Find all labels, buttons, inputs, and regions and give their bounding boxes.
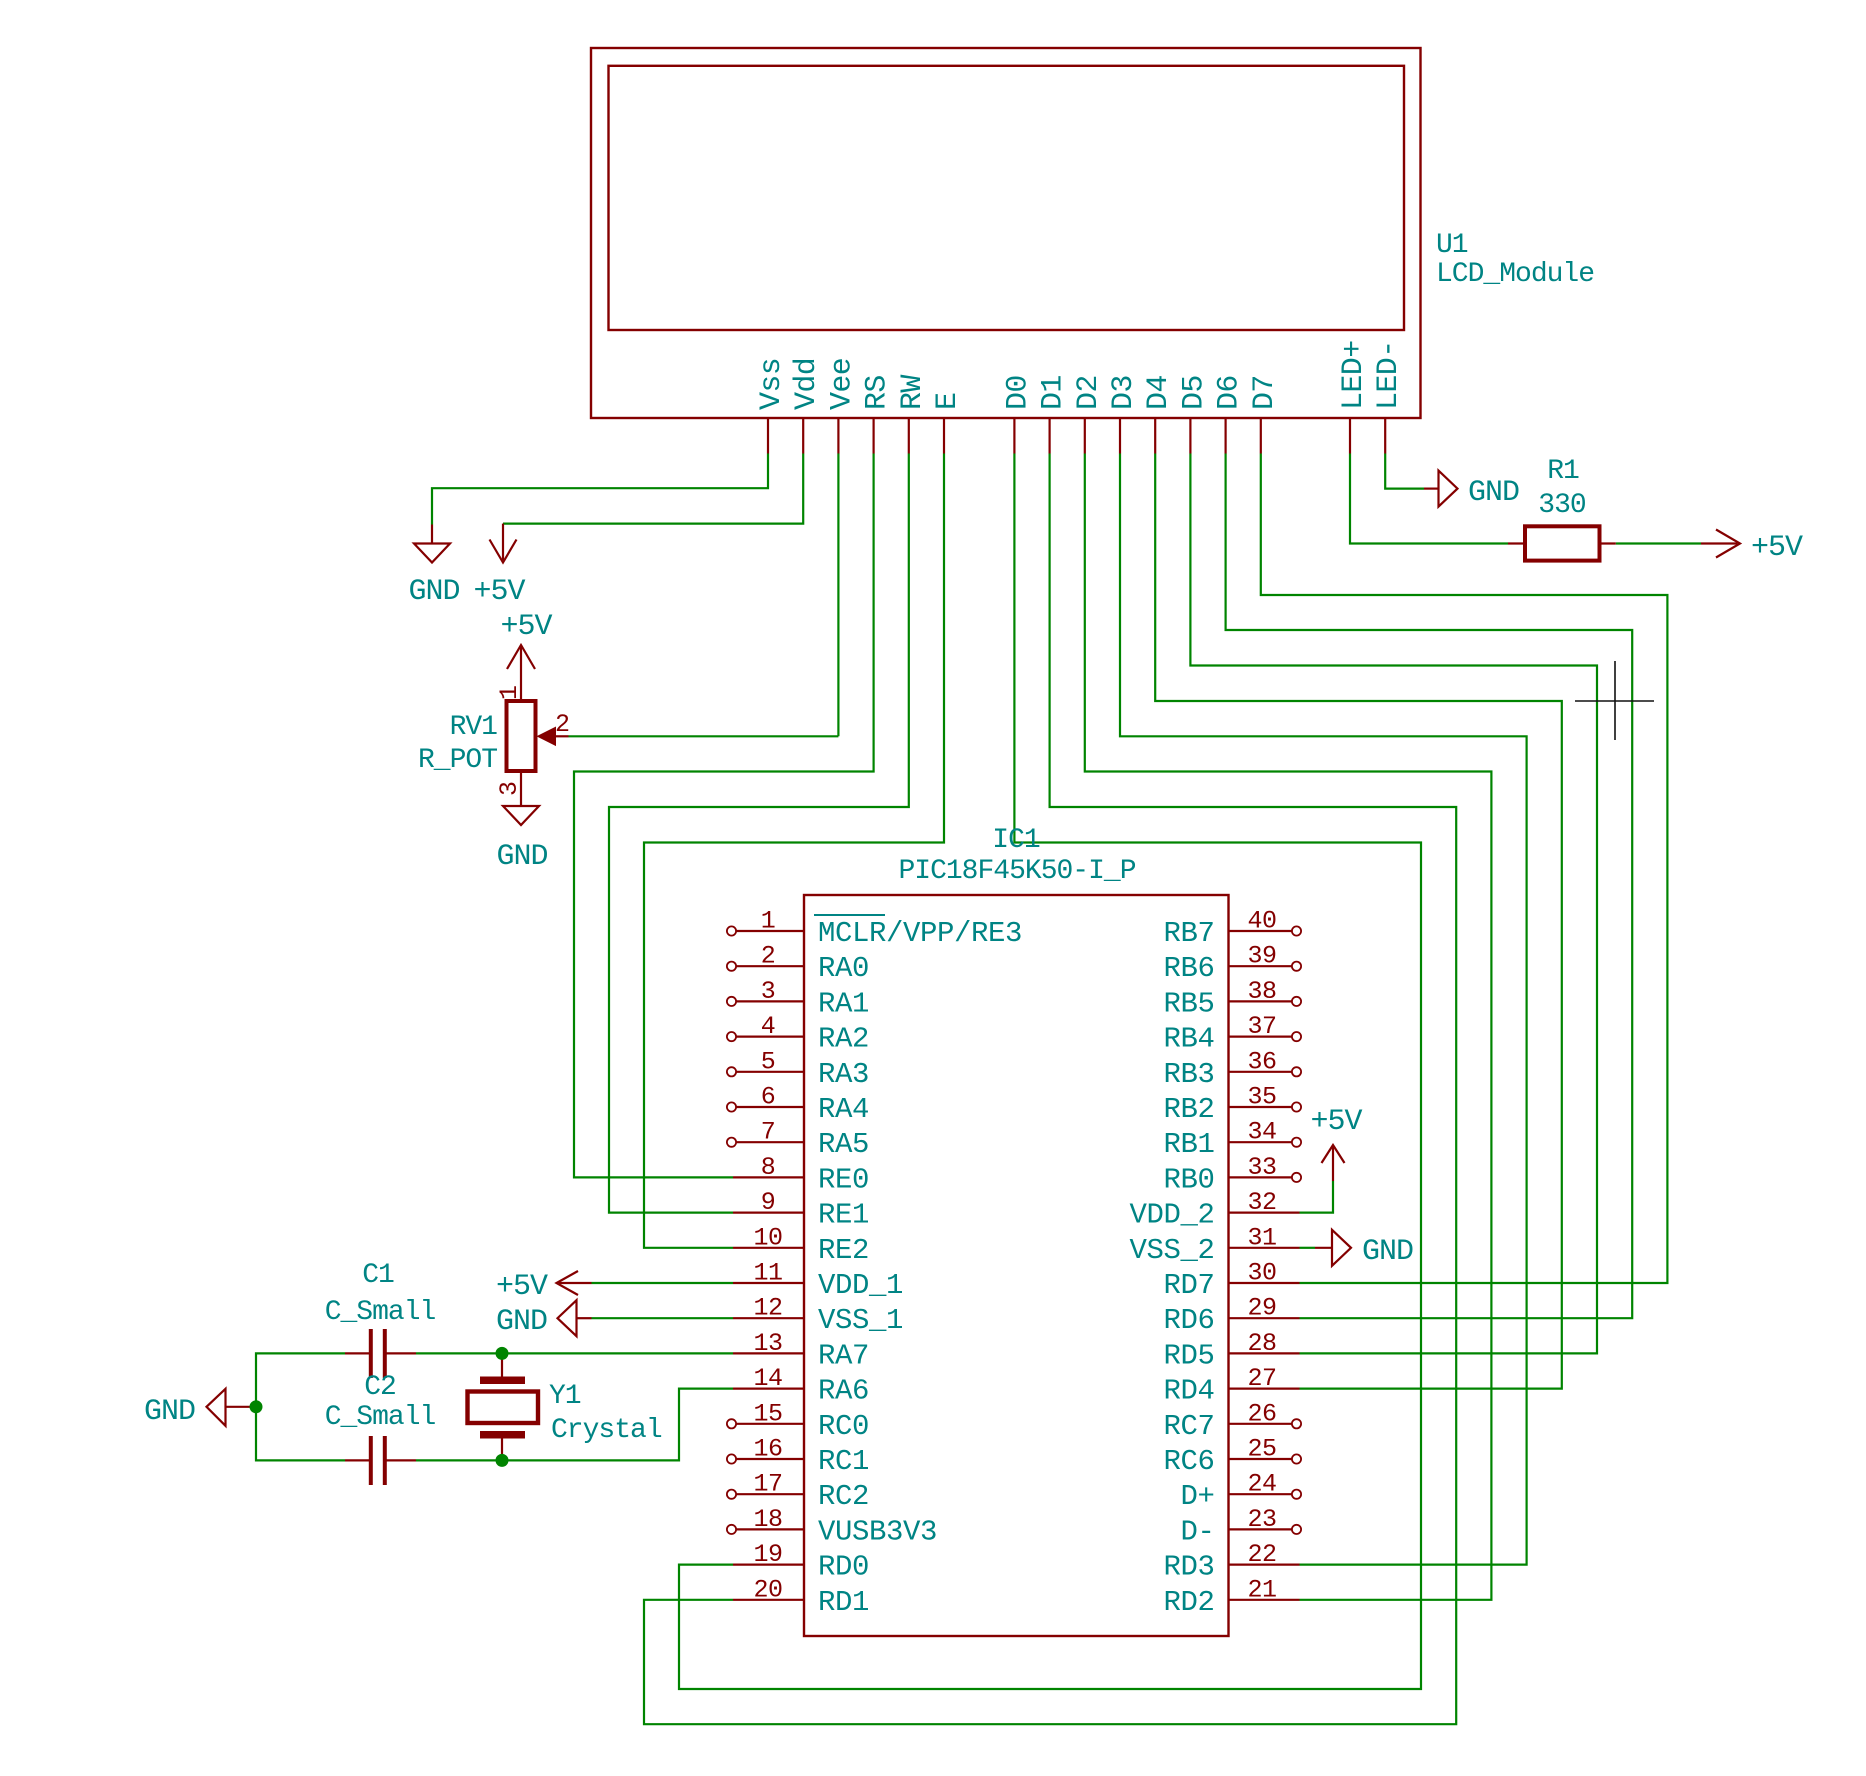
svg-text:31: 31 <box>1247 1223 1276 1252</box>
IC1 pin 39 RB6 <box>1163 942 1301 986</box>
svg-text:RW: RW <box>896 375 930 410</box>
capacitor C2 C_Small <box>325 1372 436 1485</box>
ground GND left of crystal <box>144 1389 256 1429</box>
svg-text:RD1: RD1 <box>818 1586 869 1619</box>
svg-text:RB0: RB0 <box>1163 1163 1214 1196</box>
svg-text:C2: C2 <box>364 1372 396 1403</box>
svg-text:RB4: RB4 <box>1163 1023 1214 1056</box>
svg-text:RE2: RE2 <box>818 1234 869 1267</box>
U1 pin RS <box>861 375 895 453</box>
svg-text:6: 6 <box>761 1083 776 1112</box>
U1 pin D0 <box>1001 375 1035 453</box>
power +5V right of R1 <box>1701 530 1803 566</box>
junction at Y1 top / RA7 <box>496 1347 509 1360</box>
svg-text:330: 330 <box>1538 490 1586 521</box>
svg-text:RB6: RB6 <box>1163 952 1214 985</box>
wire D4 to IC1 RD4 <box>1155 454 1562 1389</box>
svg-text:27: 27 <box>1247 1364 1276 1393</box>
svg-text:Vee: Vee <box>825 358 859 410</box>
IC1 pin 5 RA3 <box>727 1047 869 1091</box>
ground GND below Vss <box>408 525 459 610</box>
IC1 pin 11 VDD_1 <box>733 1259 903 1303</box>
svg-text:RA6: RA6 <box>818 1375 869 1408</box>
wire IC1 VDD_2 to +5V <box>1300 1181 1334 1213</box>
junction at Y1 bottom / RA6 <box>496 1454 509 1467</box>
U1 pin Vee <box>825 358 859 454</box>
svg-text:RD3: RD3 <box>1163 1551 1214 1584</box>
potentiometer RV1 R_POT <box>418 701 569 776</box>
svg-text:D7: D7 <box>1248 375 1282 410</box>
IC1 pin 19 RD0 <box>733 1540 869 1584</box>
svg-text:5: 5 <box>761 1047 776 1076</box>
svg-text:D+: D+ <box>1180 1480 1214 1513</box>
svg-text:RS: RS <box>861 375 895 410</box>
svg-text:25: 25 <box>1247 1435 1276 1464</box>
svg-text:15: 15 <box>753 1399 782 1428</box>
IC1 pin 9 RE1 <box>733 1188 869 1232</box>
wire D1 to IC1 RD1 <box>644 454 1456 1725</box>
IC1 pin 21 RD2 <box>1163 1575 1299 1619</box>
svg-text:36: 36 <box>1247 1047 1276 1076</box>
U1 pin D2 <box>1072 375 1106 453</box>
svg-text:RV1: RV1 <box>450 712 498 743</box>
IC1 pin 16 RC1 <box>727 1435 869 1479</box>
wire IC1 VSS_2 to GND <box>1300 1247 1316 1249</box>
svg-text:RC6: RC6 <box>1163 1445 1214 1478</box>
svg-text:RA2: RA2 <box>818 1023 869 1056</box>
U1 pin D5 <box>1177 375 1211 453</box>
svg-text:19: 19 <box>753 1540 782 1569</box>
microcontroller IC1 PIC18F45K50-I_P body <box>804 895 1229 1636</box>
IC1 pin 29 RD6 <box>1163 1294 1299 1338</box>
svg-text:Vdd: Vdd <box>790 358 824 410</box>
svg-text:RC2: RC2 <box>818 1480 869 1513</box>
IC1 pin 34 RB1 <box>1163 1118 1301 1162</box>
svg-text:RA3: RA3 <box>818 1058 869 1091</box>
svg-text:1: 1 <box>761 907 776 936</box>
U1 pin RW <box>896 375 930 454</box>
svg-text:GND: GND <box>496 1305 547 1339</box>
IC1 pin 4 RA2 <box>727 1012 869 1056</box>
crystal Y1 <box>468 1353 662 1460</box>
wire IC1 RA7 to C1 and Y1 <box>416 1352 733 1354</box>
LCD module U1 screen rectangle <box>609 66 1405 330</box>
svg-text:PIC18F45K50-I_P: PIC18F45K50-I_P <box>898 856 1135 887</box>
svg-text:9: 9 <box>761 1188 776 1217</box>
svg-text:VSS_1: VSS_1 <box>818 1304 903 1337</box>
svg-text:+5V: +5V <box>473 575 525 609</box>
svg-text:RB2: RB2 <box>1163 1093 1214 1126</box>
IC1 pin 13 RA7 <box>733 1329 869 1373</box>
ground GND at LED- <box>1424 471 1519 510</box>
IC1 pin 31 VSS_2 <box>1129 1223 1299 1267</box>
svg-text:7: 7 <box>761 1118 776 1147</box>
IC1 pin 28 RD5 <box>1163 1329 1299 1373</box>
wire R1 to +5V <box>1616 542 1701 544</box>
svg-text:VDD_1: VDD_1 <box>818 1269 903 1302</box>
svg-text:16: 16 <box>753 1435 782 1464</box>
U1 pin Vss <box>755 358 789 454</box>
svg-text:RD7: RD7 <box>1163 1269 1214 1302</box>
svg-text:22: 22 <box>1247 1540 1276 1569</box>
svg-text:RA0: RA0 <box>818 952 869 985</box>
junction at GND branch of C1/C2 <box>250 1400 263 1413</box>
svg-text:39: 39 <box>1247 942 1276 971</box>
svg-text:2: 2 <box>761 942 776 971</box>
power +5V above RV1 <box>500 610 552 701</box>
IC1 pin 22 RD3 <box>1163 1540 1299 1584</box>
svg-text:+5V: +5V <box>500 610 552 644</box>
U1 pin E <box>931 393 965 454</box>
U1 pin D7 <box>1248 375 1282 453</box>
svg-text:R_POT: R_POT <box>418 745 497 776</box>
IC1 pin 1 MCLR/VPP/RE3 <box>727 907 1022 951</box>
IC1 pin 27 RD4 <box>1163 1364 1299 1408</box>
U1 pin D1 <box>1037 375 1071 453</box>
svg-text:29: 29 <box>1247 1294 1276 1323</box>
svg-text:Vss: Vss <box>755 358 789 410</box>
svg-text:RB3: RB3 <box>1163 1058 1214 1091</box>
svg-text:D6: D6 <box>1213 375 1247 410</box>
wire +5V to IC1 VDD_1 <box>592 1282 734 1284</box>
wire D6 to IC1 RD6 <box>1226 454 1633 1319</box>
IC1 pin 3 RA1 <box>727 977 869 1021</box>
svg-text:18: 18 <box>753 1505 782 1534</box>
svg-text:38: 38 <box>1247 977 1276 1006</box>
wire C1 to GND branch <box>256 1353 345 1460</box>
U1 pin Vdd <box>790 358 824 454</box>
wire D3 to IC1 RD3 <box>1120 454 1527 1565</box>
IC1 pin 23 D- <box>1180 1505 1301 1549</box>
svg-text:RA7: RA7 <box>818 1339 869 1372</box>
power +5V below Vdd <box>473 524 525 609</box>
IC1 pin 6 RA4 <box>727 1083 869 1127</box>
svg-text:40: 40 <box>1247 907 1276 936</box>
svg-text:RB1: RB1 <box>1163 1128 1214 1161</box>
wire LED- to GND <box>1385 454 1424 489</box>
power +5V at IC1 VDD_2 pin 32 <box>1310 1105 1362 1181</box>
svg-text:1: 1 <box>495 685 524 700</box>
IC1 pin 30 RD7 <box>1163 1259 1299 1303</box>
IC1 pin 24 D+ <box>1180 1470 1301 1514</box>
wire C2 to Y1 to IC1 RA6 <box>416 1389 733 1461</box>
svg-text:+5V: +5V <box>1310 1105 1362 1139</box>
IC1 pin 26 RC7 <box>1163 1399 1301 1443</box>
svg-text:3: 3 <box>495 781 524 796</box>
svg-text:RD6: RD6 <box>1163 1304 1214 1337</box>
cursor crosshair <box>1575 661 1654 740</box>
svg-text:VDD_2: VDD_2 <box>1129 1199 1214 1232</box>
svg-text:E: E <box>931 393 965 410</box>
svg-text:RE0: RE0 <box>818 1163 869 1196</box>
IC1 pin 20 RD1 <box>733 1575 869 1619</box>
svg-text:12: 12 <box>753 1294 782 1323</box>
svg-text:10: 10 <box>753 1223 782 1252</box>
svg-text:33: 33 <box>1247 1153 1276 1182</box>
wire Vss to GND <box>432 454 768 525</box>
IC1 pin 17 RC2 <box>727 1470 869 1514</box>
IC1 pin 40 RB7 <box>1163 907 1301 951</box>
svg-text:RC1: RC1 <box>818 1445 869 1478</box>
wire D0 to IC1 RD0 <box>679 454 1421 1690</box>
svg-text:30: 30 <box>1247 1259 1276 1288</box>
svg-text:34: 34 <box>1247 1118 1276 1147</box>
svg-text:8: 8 <box>761 1153 776 1182</box>
wire E to IC1 RE2 <box>644 454 944 1248</box>
U1 pin D6 <box>1213 375 1247 453</box>
svg-text:21: 21 <box>1247 1575 1276 1604</box>
svg-text:+5V: +5V <box>496 1270 548 1304</box>
IC1 pin 2 RA0 <box>727 942 869 986</box>
svg-text:D1: D1 <box>1037 375 1071 410</box>
svg-text:32: 32 <box>1247 1188 1276 1217</box>
resistor R1 330 <box>1508 456 1616 561</box>
power +5V at IC1 VDD_1 pin 11 <box>496 1270 592 1304</box>
IC1 pin 15 RC0 <box>727 1399 869 1443</box>
svg-text:D2: D2 <box>1072 375 1106 410</box>
svg-text:RB5: RB5 <box>1163 987 1214 1020</box>
svg-text:VSS_2: VSS_2 <box>1129 1234 1214 1267</box>
svg-text:GND: GND <box>408 575 459 609</box>
svg-text:RA5: RA5 <box>818 1128 869 1161</box>
svg-text:GND: GND <box>496 840 547 874</box>
svg-text:D4: D4 <box>1142 375 1176 410</box>
svg-text:RE1: RE1 <box>818 1199 869 1232</box>
IC1 pin 14 RA6 <box>733 1364 869 1408</box>
svg-text:D3: D3 <box>1107 375 1141 410</box>
IC1 pin 10 RE2 <box>733 1223 869 1267</box>
wire D5 to IC1 RD5 <box>1190 454 1597 1354</box>
svg-text:28: 28 <box>1247 1329 1276 1358</box>
svg-text:D5: D5 <box>1177 375 1211 410</box>
svg-text:RA4: RA4 <box>818 1093 869 1126</box>
wire LED+ to R1 <box>1350 454 1508 544</box>
svg-text:C1: C1 <box>362 1260 394 1291</box>
IC1 pin 12 VSS_1 <box>733 1294 903 1338</box>
svg-text:+5V: +5V <box>1751 531 1803 565</box>
svg-text:GND: GND <box>1362 1235 1413 1269</box>
svg-text:RD2: RD2 <box>1163 1586 1214 1619</box>
svg-text:35: 35 <box>1247 1083 1276 1112</box>
wire RS to IC1 RE0 <box>574 454 874 1178</box>
svg-text:IC1: IC1 <box>992 825 1040 856</box>
svg-text:GND: GND <box>144 1395 195 1429</box>
IC1 pin 35 RB2 <box>1163 1083 1301 1127</box>
svg-text:20: 20 <box>753 1575 782 1604</box>
svg-text:11: 11 <box>753 1259 782 1288</box>
wire Vdd to +5V <box>503 454 803 524</box>
wire D7 to IC1 RD7 <box>1261 454 1668 1284</box>
U1 pin LED+ <box>1337 340 1371 453</box>
svg-text:37: 37 <box>1247 1012 1276 1041</box>
IC1 pin 32 VDD_2 <box>1129 1188 1299 1232</box>
ground GND below RV1 <box>496 771 547 874</box>
svg-text:LED-: LED- <box>1372 340 1406 410</box>
svg-text:26: 26 <box>1247 1399 1276 1428</box>
svg-text:17: 17 <box>753 1470 782 1499</box>
svg-text:14: 14 <box>753 1364 782 1393</box>
wire D2 to IC1 RD2 <box>1085 454 1492 1600</box>
svg-text:R1: R1 <box>1547 456 1579 487</box>
svg-text:Y1: Y1 <box>549 1381 581 1412</box>
U1 pin LED- <box>1372 340 1406 453</box>
svg-text:RA1: RA1 <box>818 987 869 1020</box>
svg-text:RC7: RC7 <box>1163 1410 1214 1443</box>
svg-text:U1: U1 <box>1436 230 1468 261</box>
svg-text:LED+: LED+ <box>1337 340 1371 410</box>
ground GND at IC1 VSS_1 pin 12 <box>496 1300 592 1339</box>
svg-text:C_Small: C_Small <box>325 1297 436 1328</box>
svg-text:MCLR/VPP/RE3: MCLR/VPP/RE3 <box>818 917 1022 950</box>
wire RV1 wiper to Vee <box>569 735 839 737</box>
LCD module U1 body outline <box>591 48 1421 418</box>
IC1 pin 25 RC6 <box>1163 1435 1301 1479</box>
svg-text:13: 13 <box>753 1329 782 1358</box>
svg-text:RD4: RD4 <box>1163 1375 1214 1408</box>
svg-text:D-: D- <box>1180 1515 1214 1548</box>
wire RW to IC1 RE1 <box>609 454 909 1213</box>
wire Vee down to RV1 wiper <box>837 454 839 737</box>
svg-text:GND: GND <box>1468 476 1519 510</box>
ground GND at IC1 VSS_2 pin 31 <box>1315 1230 1413 1269</box>
svg-text:RC0: RC0 <box>818 1410 869 1443</box>
svg-text:23: 23 <box>1247 1505 1276 1534</box>
svg-text:RB7: RB7 <box>1163 917 1214 950</box>
svg-text:Crystal: Crystal <box>551 1415 662 1446</box>
IC1 pin 38 RB5 <box>1163 977 1301 1021</box>
IC1 pin 36 RB3 <box>1163 1047 1301 1091</box>
IC1 pin 7 RA5 <box>727 1118 869 1162</box>
capacitor C1 C_Small <box>325 1260 436 1378</box>
svg-text:RD5: RD5 <box>1163 1339 1214 1372</box>
IC1 pin 33 RB0 <box>1163 1153 1301 1197</box>
IC1 pin 8 RE0 <box>733 1153 869 1197</box>
svg-text:24: 24 <box>1247 1470 1276 1499</box>
svg-text:C_Small: C_Small <box>325 1402 436 1433</box>
svg-text:LCD_Module: LCD_Module <box>1436 259 1594 290</box>
IC1 pin 37 RB4 <box>1163 1012 1301 1056</box>
svg-text:VUSB3V3: VUSB3V3 <box>818 1515 937 1548</box>
IC1 pin 18 VUSB3V3 <box>727 1505 937 1549</box>
U1 pin D4 <box>1142 375 1176 453</box>
svg-text:RD0: RD0 <box>818 1551 869 1584</box>
wire GND to IC1 VSS_1 <box>592 1317 734 1319</box>
svg-text:3: 3 <box>761 977 776 1006</box>
svg-text:D0: D0 <box>1001 375 1035 410</box>
svg-text:2: 2 <box>555 710 570 739</box>
svg-text:4: 4 <box>761 1012 776 1041</box>
U1 pin D3 <box>1107 375 1141 453</box>
